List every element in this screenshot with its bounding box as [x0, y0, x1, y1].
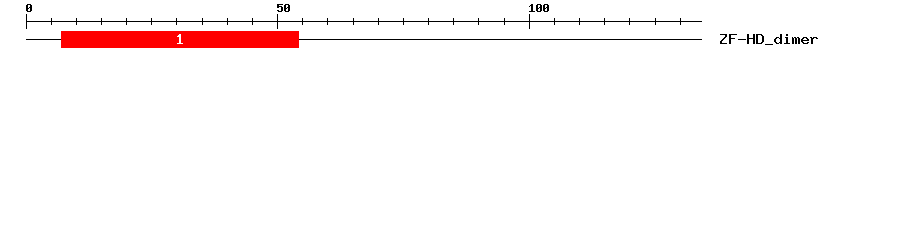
ruler minor tick at residue 115 (x=604) — [604, 18, 605, 25]
ruler minor tick at residue 55 (x=302) — [302, 18, 303, 25]
ruler scale label 0 — [26, 4, 32, 12]
ruler minor tick at residue 25 (x=151) — [151, 18, 152, 25]
ruler minor tick at residue 60 (x=327) — [327, 18, 328, 25]
match number label 1 (white) — [177, 34, 183, 44]
ruler minor tick at residue 70 (x=378) — [378, 18, 379, 25]
ruler major tick at residue 0 (x=26) — [26, 14, 27, 29]
ruler minor tick at residue 130 (x=680) — [680, 18, 681, 25]
ruler minor tick at residue 105 (x=554) — [554, 18, 555, 25]
ruler minor tick at residue 85 (x=453) — [453, 18, 454, 25]
ruler minor tick at residue 80 (x=428) — [428, 18, 429, 25]
ruler minor tick at residue 40 (x=227) — [227, 18, 228, 25]
ruler minor tick at residue 110 (x=579) — [579, 18, 580, 25]
ruler minor tick at residue 65 (x=353) — [353, 18, 354, 25]
ruler axis line (residues 0-134) — [26, 21, 702, 22]
ruler minor tick at residue 5 (x=51) — [51, 18, 52, 25]
ruler minor tick at residue 15 (x=101) — [101, 18, 102, 25]
ruler minor tick at residue 95 (x=504) — [504, 18, 505, 25]
ruler minor tick at residue 10 (x=76) — [76, 18, 77, 25]
ruler minor tick at residue 35 (x=202) — [202, 18, 203, 25]
sequence backbone line — [26, 39, 702, 40]
ruler minor tick at residue 120 (x=629) — [629, 18, 630, 25]
motif name label ZF-HD_dimer — [720, 34, 818, 45]
ruler major tick at residue 100 (x=529) — [529, 14, 530, 29]
ruler minor tick at residue 30 (x=176) — [176, 18, 177, 25]
ruler minor tick at residue 20 (x=126) — [126, 18, 127, 25]
ruler scale label 50 — [277, 4, 290, 12]
ruler minor tick at residue 45 (x=252) — [252, 18, 253, 25]
motif match box (red, residues 7-54) — [61, 31, 299, 48]
ruler minor tick at residue 75 (x=403) — [403, 18, 404, 25]
white background — [0, 0, 900, 58]
ruler scale label 100 — [529, 4, 549, 12]
ruler minor tick at residue 90 (x=478) — [478, 18, 479, 25]
ruler minor tick at residue 125 (x=655) — [655, 18, 656, 25]
ruler major tick at residue 50 (x=277) — [277, 14, 278, 29]
